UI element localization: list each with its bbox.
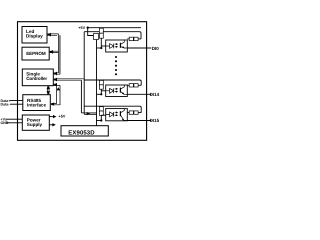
resistor R3c ch3 (134, 111, 138, 114)
arrowhead into Led Display (47, 33, 51, 37)
phototransistor Q3 inside opto ch3 (119, 111, 121, 116)
arrowhead into Controller port2 (53, 78, 57, 82)
opto-isolator U2 box ch1 (106, 40, 128, 52)
wire ch3 node to busC (97, 120, 102, 122)
LED D1 inside opto ch1 (106, 44, 114, 49)
opto-isolator U4 box ch3 (106, 109, 128, 121)
wire DI0 output (127, 47, 151, 49)
wire ch3 opto left pin (101, 114, 105, 116)
svg-text:Display: Display (26, 33, 43, 38)
svg-text:Interface: Interface (27, 103, 47, 108)
resistor R1a vertical pair ch1 (99, 28, 103, 33)
box Power Supply (22, 115, 49, 130)
arrowhead down into RS485 top (46, 91, 50, 94)
svg-text:Data-: Data- (1, 103, 11, 107)
arrowhead into EEPROM (49, 50, 53, 54)
wire ch1 resistor to collector node (100, 38, 102, 48)
svg-text:DI14: DI14 (150, 92, 160, 97)
wire ch1 node to busC (97, 47, 102, 49)
wire busB to busC with arrow (81, 113, 96, 114)
wire ch1 opto left pin (101, 45, 105, 47)
arrowhead up into Controller bottom (46, 86, 50, 89)
svg-text:+5V: +5V (59, 114, 66, 118)
resistor R2a vertical pair ch2 (99, 80, 103, 84)
box EEPROM (22, 47, 49, 60)
outer frame (18, 22, 147, 141)
box Led Display (22, 27, 47, 44)
wire +5V dot feed to resistor R0 (88, 28, 94, 36)
resistor R1b ch1 (129, 37, 133, 40)
resistor R3a vertical pair ch3 (99, 107, 103, 111)
wire ch3 resistor to node (100, 115, 102, 120)
svg-text:DI0: DI0 (152, 46, 160, 51)
arrowhead into Controller port3 (53, 83, 57, 87)
resistor R2c ch2 (134, 84, 138, 87)
bus Controller-RS485 vertical link (double line) (48, 86, 49, 94)
svg-text:Supply: Supply (27, 122, 43, 127)
wire DI15 output (127, 120, 151, 122)
LED D3 inside opto ch3 (106, 112, 114, 117)
wire ch3 rail (84, 106, 141, 112)
wire Power Supply +5V output (49, 116, 53, 118)
wire GND to Power Supply (7, 122, 23, 124)
wire ch2 right resistor line (127, 84, 141, 86)
wire Power Supply second output (49, 124, 52, 126)
wire ch2 rail (84, 80, 141, 85)
bus collector line busC vertical (96, 40, 98, 126)
svg-text:+5V: +5V (78, 26, 85, 30)
wire ch2 node to busC (97, 93, 102, 95)
bus Controller port2 to vertical +5V line (double line) (54, 79, 84, 80)
bus Led Display to busA (double line) (48, 34, 59, 35)
resistor R3b ch3 (129, 111, 133, 114)
svg-text:Controller: Controller (26, 76, 47, 81)
node ch1 collector junction dot (100, 47, 102, 49)
wire ch3 right resistor line (127, 112, 141, 114)
svg-text:EX9053D: EX9053D (68, 129, 95, 136)
light arrows ch1 (115, 44, 117, 47)
svg-text:EEPROM: EEPROM (26, 51, 46, 56)
resistor R2b ch2 (129, 84, 133, 87)
wire +5V rail line1 (88, 27, 141, 29)
opto-isolator U3 box ch2 (106, 85, 128, 97)
node ch2 junction dot (100, 93, 102, 95)
node +5V junction dot (87, 27, 89, 29)
box Single Controller U1 (22, 69, 53, 86)
arrowhead second output (52, 123, 55, 126)
wire DI14 output (127, 93, 151, 95)
phototransistor Q1 inside opto ch1 (119, 43, 121, 48)
wire ch1 rail line2 (84, 32, 141, 39)
light arrows ch3 (115, 113, 117, 116)
arrowhead on busB-busC wire (87, 112, 90, 115)
svg-text:DI15: DI15 (150, 118, 160, 123)
wire ch2 opto left pin (101, 90, 105, 92)
wire Data+ to RS485 (10, 100, 23, 102)
wire +5V distribution vertical busB (81, 32, 84, 115)
bus A vertical (double line) (59, 34, 60, 74)
resistor R0 (94, 34, 99, 40)
light arrows ch2 (115, 89, 117, 92)
bus EEPROM to busA (double line) (50, 51, 59, 52)
bus Controller port3 J-link to RS485 (double line) (51, 84, 60, 105)
bus busA to Controller port1 (double line) (54, 35, 60, 74)
node ch3 junction dot (100, 119, 102, 121)
node continuation dots (115, 56, 117, 58)
arrowhead +5V output (53, 115, 56, 118)
wire ch2 resistor to node (100, 89, 102, 94)
box RS485 Interface (23, 95, 51, 111)
box EX9053D (61, 126, 108, 136)
wire ch1 right resistor line (127, 38, 141, 40)
arrowhead up on J-link (56, 87, 60, 90)
LED D2 inside opto ch2 (106, 88, 114, 93)
arrowhead into Controller port1 (53, 72, 57, 76)
resistor R1c ch1 (134, 37, 138, 40)
wire +Vs to Power Supply (7, 118, 23, 120)
arrowhead into RS485 right edge (51, 102, 54, 105)
phototransistor Q2 inside opto ch2 (119, 88, 121, 93)
wire Data- to RS485 (10, 103, 23, 105)
